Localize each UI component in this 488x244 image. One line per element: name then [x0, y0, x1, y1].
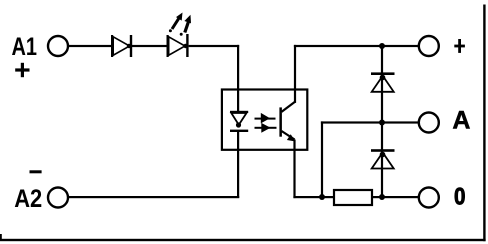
LED D2 [167, 34, 189, 57]
wire suppressor chain vertical [381, 45, 383, 198]
resistor R1 [334, 190, 372, 205]
opto coupling arrow 1 [255, 113, 276, 124]
diode D1 [111, 35, 132, 57]
wire A2 row [69, 196, 240, 198]
junction top [379, 43, 385, 49]
opto coupling arrow 2 [255, 123, 277, 133]
wire LED to corner [189, 45, 240, 47]
wire resistor to 0 terminal [372, 196, 419, 198]
terminal A circle [419, 113, 439, 133]
svg-text:A1: A1 [12, 33, 38, 61]
frame bottom-left tick [0, 234, 2, 239]
terminal + circle [419, 36, 439, 56]
wire emitter down [293, 140, 295, 199]
suppressor diode D3 [371, 72, 395, 91]
svg-text:A: A [452, 106, 470, 134]
terminal A1 circle [48, 36, 68, 56]
junction 0 row [379, 194, 385, 200]
svg-text:A2: A2 [14, 185, 42, 213]
wire A drop vertical [321, 121, 323, 198]
suppressor diode D4 [371, 149, 395, 168]
wire emitter row to resistor [293, 196, 335, 198]
wire A row [321, 121, 419, 123]
frame right border [483, 5, 485, 242]
frame bottom border [0, 239, 486, 241]
phototransistor Q1 [279, 102, 295, 142]
polarity + label (left) [15, 63, 29, 77]
terminal 0 circle [419, 188, 439, 208]
minus label (left) [30, 170, 42, 173]
wire collector up [294, 45, 296, 103]
svg-text:0: 0 [454, 183, 466, 210]
junction A row [379, 120, 385, 126]
polarity + label (right) [454, 39, 465, 53]
opto LED (inside box) [230, 111, 248, 132]
LED emission arrows [169, 13, 191, 36]
optocoupler U1 box [222, 90, 307, 150]
terminal A2 circle [48, 188, 68, 208]
wire A1 to D1 [69, 45, 112, 47]
wire D1 to LED [132, 45, 167, 47]
junction emitter/A/resistor [319, 194, 325, 200]
wire top row to + terminal [294, 45, 419, 47]
wire opto LED cathode down [237, 132, 239, 198]
wire corner down into optocoupler [237, 45, 239, 113]
